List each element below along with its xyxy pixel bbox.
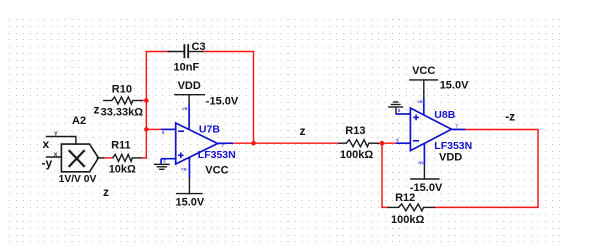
svg-text:VDD: VDD: [439, 152, 462, 164]
svg-text:10nF: 10nF: [174, 62, 200, 74]
svg-text:VB+: VB+: [417, 99, 426, 104]
svg-text:VDD: VDD: [178, 80, 201, 92]
svg-text:VCC: VCC: [205, 165, 228, 177]
svg-text:U8B: U8B: [434, 109, 455, 121]
svg-text:VB-: VB-: [418, 160, 426, 165]
svg-text:U7B: U7B: [199, 124, 220, 136]
svg-text:VB+: VB+: [182, 106, 191, 111]
svg-text:z: z: [300, 124, 306, 138]
svg-text:VCC: VCC: [412, 65, 435, 77]
svg-text:VB-: VB-: [181, 167, 189, 172]
svg-text:C3: C3: [192, 41, 206, 53]
svg-text:z: z: [103, 185, 109, 199]
svg-text:R10: R10: [112, 84, 132, 96]
svg-text:1V/V 0V: 1V/V 0V: [59, 174, 97, 185]
svg-text:R13: R13: [345, 125, 365, 137]
svg-text:R12: R12: [395, 192, 415, 204]
svg-text:15.0V: 15.0V: [440, 80, 469, 92]
svg-text:x: x: [43, 137, 50, 151]
svg-text:-15.0V: -15.0V: [206, 95, 239, 107]
svg-text:A2: A2: [72, 115, 86, 127]
svg-text:15.0V: 15.0V: [176, 196, 205, 208]
svg-text:Y: Y: [54, 132, 58, 138]
svg-text:z: z: [94, 103, 100, 117]
svg-text:33.33kΩ: 33.33kΩ: [101, 107, 144, 119]
svg-text:R11: R11: [111, 139, 131, 151]
svg-text:-z: -z: [505, 110, 515, 124]
svg-text:100kΩ: 100kΩ: [391, 214, 424, 226]
svg-text:X: X: [54, 152, 58, 158]
svg-text:LF353N: LF353N: [198, 149, 236, 161]
svg-text:LF353N: LF353N: [434, 140, 472, 152]
svg-text:10kΩ: 10kΩ: [109, 163, 136, 175]
svg-text:100kΩ: 100kΩ: [340, 149, 373, 161]
svg-text:-y: -y: [42, 156, 53, 170]
